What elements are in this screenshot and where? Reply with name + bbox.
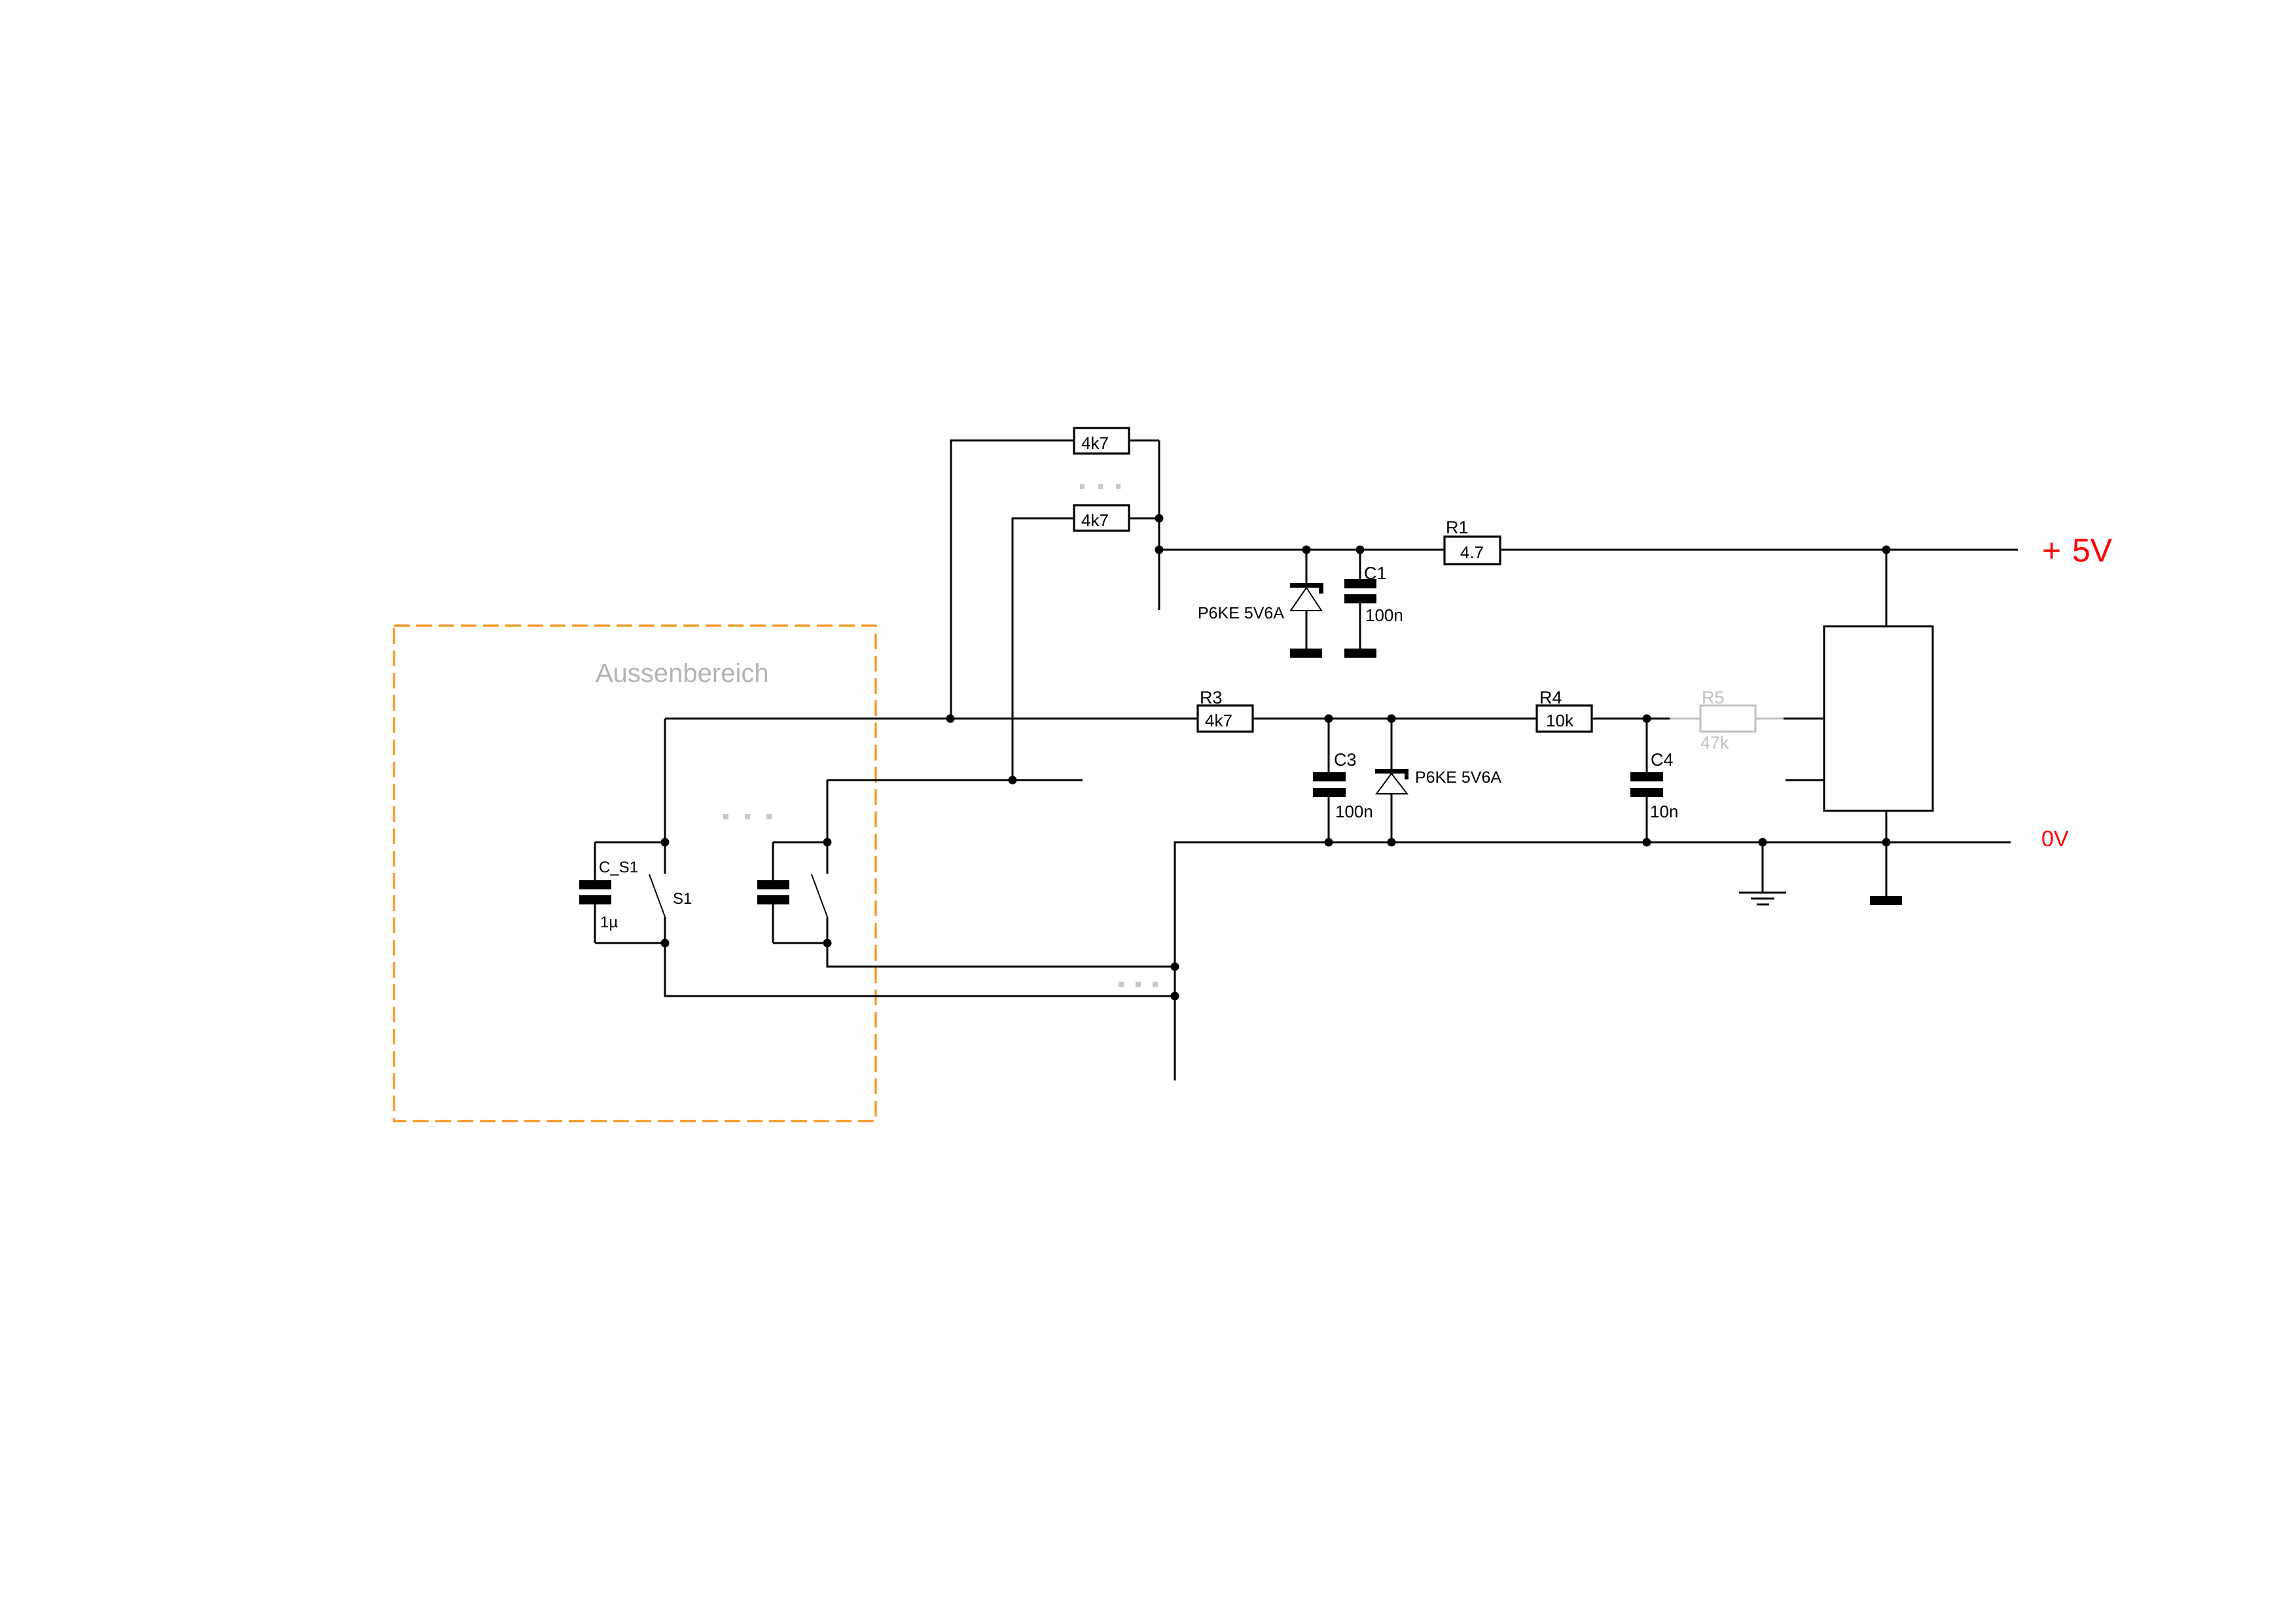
wire +5V rail left segment	[1159, 549, 1444, 551]
wire row to second pull-up	[827, 779, 1083, 781]
svg-text:C4: C4	[1651, 750, 1674, 770]
pin IC input 2 stub	[1785, 779, 1824, 781]
wire RA1 left lead	[951, 440, 1074, 719]
svg-text:1µ: 1µ	[600, 914, 618, 931]
wire IC supply lead	[1886, 550, 1888, 626]
svg-text:C_S1: C_S1	[599, 859, 638, 876]
node S1 top	[661, 838, 670, 847]
switch S2	[812, 842, 827, 943]
svg-text:4k7: 4k7	[1081, 433, 1109, 453]
svg-text:100n: 100n	[1365, 605, 1403, 625]
svg-text:10n: 10n	[1650, 802, 1678, 821]
node pull-up bus / RA2	[1155, 514, 1164, 523]
dashed region Aussenbereich	[394, 626, 876, 1121]
ground bar below IC	[1870, 896, 1902, 905]
wire middle rail segment R4-C4	[1592, 718, 1670, 720]
capacitor C4 10n	[1630, 719, 1678, 842]
node IC ground / 0V rail	[1882, 838, 1891, 847]
svg-text:4.7: 4.7	[1460, 543, 1484, 562]
wire gray lead out of R5	[1755, 718, 1784, 720]
wire S2 return	[827, 943, 1175, 967]
node S2 top	[823, 838, 832, 847]
wire switched line S1 group	[664, 719, 666, 842]
capacitor C3 100n	[1313, 719, 1373, 842]
node pull-up bus / +5V rail	[1155, 546, 1164, 554]
node RA2 lead / row	[1009, 776, 1017, 785]
wire IC ground lead	[1886, 811, 1888, 896]
wire switched line group 2	[827, 780, 829, 842]
ellipsis dots between pull-ups	[1080, 484, 1121, 489]
node S2 return / 0V drop	[1171, 963, 1179, 971]
wire middle rail segment R3-R4	[1253, 718, 1537, 720]
wire pull-up bus vertical	[1158, 440, 1160, 610]
svg-text:4k7: 4k7	[1081, 510, 1109, 530]
resistor R1	[1444, 518, 1500, 564]
svg-text:100n: 100n	[1335, 802, 1373, 821]
node D2 / middle rail	[1388, 715, 1396, 723]
wire RA1 right lead	[1129, 440, 1159, 442]
label +5V	[2042, 532, 2113, 569]
node C3 / 0V rail	[1325, 838, 1333, 847]
node S2 bottom	[823, 939, 832, 948]
node middle rail / RA1 lead	[946, 715, 955, 723]
switch S1	[649, 842, 692, 943]
node S1 bottom	[661, 939, 670, 948]
wire RA2 left lead	[1013, 518, 1074, 780]
svg-text:R1: R1	[1446, 518, 1469, 537]
diode D1 P6KE 5V6A (TVS on +5V)	[1198, 550, 1323, 658]
svg-text:C3: C3	[1334, 750, 1357, 770]
resistor RA2 4k7 (second pull-up)	[1074, 505, 1129, 531]
capacitor C1 100n	[1344, 550, 1403, 658]
svg-text:Aussenbereich: Aussenbereich	[596, 659, 769, 688]
wire S1 return	[665, 943, 1175, 996]
capacitor C_S2	[757, 842, 789, 943]
capacitor C_S1 1u	[579, 842, 638, 943]
svg-text:10k: 10k	[1546, 711, 1574, 730]
node D2 / 0V rail	[1388, 838, 1396, 847]
svg-text:+: +	[2042, 532, 2061, 569]
wire middle rail left segment	[665, 718, 1198, 720]
resistor RA1 4k7 (top pull-up)	[1074, 428, 1129, 454]
wire black lead to IC pin 1	[1784, 718, 1824, 720]
wire gray lead into R5	[1670, 718, 1700, 720]
node C4 / 0V rail	[1643, 838, 1651, 847]
earth ground symbol	[1739, 842, 1786, 904]
resistor R3	[1198, 688, 1253, 732]
wire C_S1 bottom link	[595, 942, 665, 944]
node C1 / +5V rail	[1356, 546, 1365, 554]
svg-text:0V: 0V	[2041, 827, 2069, 851]
svg-text:P6KE 5V6A: P6KE 5V6A	[1415, 768, 1501, 787]
diode D2 P6KE 5V6A (TVS on signal)	[1375, 719, 1501, 842]
wire C_S2 bottom link	[773, 942, 827, 944]
node C3 / middle rail	[1325, 715, 1333, 723]
wire RA2 right lead	[1129, 518, 1159, 520]
node S1 return / 0V drop	[1171, 992, 1179, 1001]
node +5V rail / IC supply	[1882, 546, 1891, 554]
resistor R5 47k (ghosted)	[1700, 688, 1755, 753]
svg-text:P6KE 5V6A: P6KE 5V6A	[1198, 604, 1284, 622]
wire 0V rail	[1175, 842, 2011, 1080]
node D1 / +5V rail	[1302, 546, 1311, 554]
svg-text:5V: 5V	[2072, 532, 2113, 569]
node earth ground / 0V rail	[1759, 838, 1767, 847]
wire +5V rail right segment	[1500, 549, 2018, 551]
IC U1 box	[1824, 626, 1933, 811]
wire C_S1 top link	[595, 842, 665, 844]
ellipsis dots bottom returns	[1119, 982, 1158, 987]
svg-text:47k: 47k	[1700, 733, 1729, 753]
wire C_S2 top link	[773, 842, 827, 844]
ellipsis dots between switch groups	[723, 814, 772, 819]
resistor R4	[1537, 688, 1592, 732]
svg-text:S1: S1	[673, 890, 692, 908]
node C4 / middle rail	[1643, 715, 1651, 723]
svg-text:4k7: 4k7	[1205, 711, 1232, 730]
